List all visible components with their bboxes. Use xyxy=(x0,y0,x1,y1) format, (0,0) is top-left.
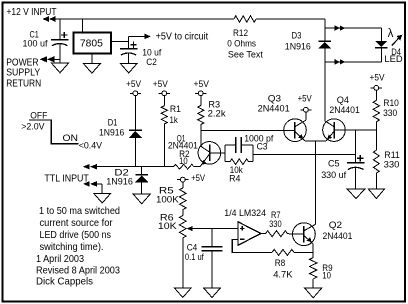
connector arrows +12V input xyxy=(43,16,56,22)
wire op-amp feedback xyxy=(232,239,272,252)
label 100 uf xyxy=(23,39,48,50)
potentiometer R6 xyxy=(180,210,187,288)
resistor R9 xyxy=(310,244,317,288)
wire TTL return xyxy=(95,184,102,194)
note line 6 xyxy=(36,265,120,277)
terminal +5V R1 xyxy=(153,79,170,96)
svg-text:R12: R12 xyxy=(233,28,248,39)
svg-text:Dick Cappels: Dick Cappels xyxy=(36,276,93,288)
label RETURN xyxy=(6,77,41,89)
label Q3 xyxy=(268,94,281,105)
label ON xyxy=(63,133,79,144)
label R2 xyxy=(179,149,190,159)
connector arrows power supply return xyxy=(40,56,60,62)
label See Text xyxy=(228,50,263,61)
resistor R12 xyxy=(234,16,256,22)
svg-text:+5V: +5V xyxy=(126,79,142,90)
ground C5 xyxy=(347,189,365,199)
svg-text:0 Ohms: 0 Ohms xyxy=(227,38,256,49)
svg-text:+5V: +5V xyxy=(298,94,313,105)
transistor Q3 xyxy=(284,119,307,142)
diode D1 xyxy=(129,96,142,167)
label Q4 xyxy=(337,95,349,106)
svg-text:10K: 10K xyxy=(158,221,178,232)
svg-text:2N4401: 2N4401 xyxy=(323,231,353,242)
label 10 R2 xyxy=(179,156,188,166)
wire Q3 collector xyxy=(305,112,307,120)
op-amp U2 1/4 LM324 xyxy=(238,222,261,246)
label 2N4401 Q3 xyxy=(258,104,290,115)
label R4 xyxy=(229,174,240,185)
svg-text:2N4401: 2N4401 xyxy=(168,141,198,151)
svg-text:100 uf: 100 uf xyxy=(23,39,48,50)
label R12 xyxy=(233,28,248,39)
label R1 xyxy=(170,104,181,115)
note line 1 xyxy=(39,205,120,217)
svg-text:330: 330 xyxy=(384,160,400,171)
LED light arrow xyxy=(388,28,403,46)
label 4.7K xyxy=(273,270,293,281)
label 1/4 LM324 xyxy=(224,208,266,219)
transistor Q2 xyxy=(293,223,316,246)
wire +12V rail xyxy=(50,18,325,20)
wire 7805 output xyxy=(111,40,129,42)
label 2.2k xyxy=(208,108,226,119)
svg-text:LED drive (500 ns: LED drive (500 ns xyxy=(40,229,112,241)
ground R9 xyxy=(305,288,322,298)
svg-text:1N916: 1N916 xyxy=(106,176,133,187)
svg-text:R1: R1 xyxy=(170,104,181,115)
LED D4 xyxy=(375,41,387,48)
label 330 R7 xyxy=(269,219,282,230)
label 1N916 D1 xyxy=(99,127,124,138)
label 1k xyxy=(170,115,178,126)
label R8 xyxy=(275,258,286,269)
svg-text:C5: C5 xyxy=(328,159,340,170)
terminal +5V Q3 xyxy=(298,94,313,113)
label C3 xyxy=(257,142,268,153)
waveform TTL levels xyxy=(29,120,79,144)
label D1 xyxy=(108,118,118,129)
terminal +5V R3 xyxy=(194,79,210,96)
capacitor C5 xyxy=(347,130,365,189)
label R5 xyxy=(159,186,174,197)
svg-text:10: 10 xyxy=(179,156,188,166)
label 0.1 uf xyxy=(185,252,204,263)
ground R11 xyxy=(368,189,384,199)
svg-text:+5V: +5V xyxy=(153,79,169,90)
svg-text:0.1 uf: 0.1 uf xyxy=(185,252,204,263)
svg-text:>2.0V: >2.0V xyxy=(21,122,45,133)
label R11 xyxy=(384,150,399,161)
diode D2 xyxy=(135,167,148,195)
svg-text:C2: C2 xyxy=(146,57,157,68)
capacitor C4 xyxy=(202,229,223,288)
svg-text:2N4401: 2N4401 xyxy=(258,104,290,115)
wire emitter node to Q2 collector xyxy=(315,141,317,224)
node C3R4 left bar xyxy=(224,145,226,162)
label R7 xyxy=(271,210,281,221)
regulator U1 7805 input wire xyxy=(82,19,84,32)
label C1 xyxy=(30,29,39,40)
label 10 R9 xyxy=(322,270,331,281)
note line 5 xyxy=(36,253,84,265)
label 2N4401 Q1 xyxy=(168,141,198,151)
resistor R2 xyxy=(174,164,200,169)
svg-text:+5V: +5V xyxy=(194,79,210,90)
capacitor C1 xyxy=(51,19,69,63)
label >2.0V xyxy=(21,122,45,133)
ground C4 xyxy=(204,288,221,298)
svg-text:λ: λ xyxy=(388,28,394,40)
svg-text:+5V: +5V xyxy=(191,173,206,184)
wiper arrow R6 xyxy=(187,226,238,231)
svg-text:330 uf: 330 uf xyxy=(321,170,346,181)
terminal +5V R5 xyxy=(177,173,205,184)
svg-text:C3: C3 xyxy=(257,142,268,153)
label 10 uf xyxy=(142,47,161,58)
label Q2 xyxy=(329,220,342,231)
svg-text:Q2: Q2 xyxy=(329,220,342,231)
svg-text:+5V to circuit: +5V to circuit xyxy=(156,32,209,43)
label D4 xyxy=(391,47,401,58)
label C4 xyxy=(187,243,198,254)
label D2 xyxy=(114,168,128,179)
label OFF xyxy=(30,110,47,121)
svg-text:7805: 7805 xyxy=(80,37,103,49)
label C5 xyxy=(328,159,340,170)
label 1000 pf xyxy=(244,134,273,145)
label C2 xyxy=(146,57,157,68)
svg-text:330: 330 xyxy=(383,108,397,119)
ground TTL return xyxy=(94,193,111,203)
ground C2 xyxy=(120,63,137,73)
label 2N4401 Q4 xyxy=(329,105,359,116)
svg-text:1N916: 1N916 xyxy=(99,127,124,138)
label <0.4V xyxy=(79,141,103,152)
svg-text:100K: 100K xyxy=(156,195,179,206)
wire Q3 Q4 emitters xyxy=(305,140,326,142)
label +12 V INPUT xyxy=(7,6,57,18)
wire LED bottom rail xyxy=(325,48,382,62)
svg-text:10: 10 xyxy=(322,270,331,281)
svg-text:switching time).: switching time). xyxy=(40,241,104,253)
svg-text:<0.4V: <0.4V xyxy=(79,141,103,152)
label 0 Ohms xyxy=(227,38,256,49)
svg-text:RETURN: RETURN xyxy=(6,77,41,89)
resistor R5 xyxy=(180,182,187,210)
svg-text:LED: LED xyxy=(384,54,402,65)
label LED xyxy=(384,54,402,65)
note line 7 xyxy=(36,276,93,288)
terminal +5V D1 xyxy=(126,79,142,96)
svg-text:+5V: +5V xyxy=(370,72,386,83)
wire D3 branch xyxy=(324,19,326,121)
label POWER xyxy=(6,56,39,68)
ground R6 xyxy=(174,288,191,298)
wire bracket to emitter node xyxy=(253,153,356,155)
resistor R7 xyxy=(266,231,294,237)
connector arrows top rail xyxy=(335,25,346,31)
note line 3 xyxy=(40,229,112,241)
label 330 R11 xyxy=(384,160,400,171)
ground C1 xyxy=(52,63,69,73)
svg-text:1/4 LM324: 1/4 LM324 xyxy=(224,208,266,219)
resistor R10 xyxy=(373,90,379,130)
wire LED top rail xyxy=(325,28,382,41)
resistor R8 xyxy=(272,249,313,255)
label 2N4401 Q2 xyxy=(323,231,353,242)
capacitor C3 xyxy=(225,137,253,153)
label 1N916 D2 xyxy=(106,176,133,187)
svg-text:2.2k: 2.2k xyxy=(208,108,226,119)
label +5V to circuit xyxy=(156,32,209,43)
note line 4 xyxy=(40,241,104,253)
label R9 xyxy=(322,263,332,274)
svg-text:1 April 2003: 1 April 2003 xyxy=(36,253,84,265)
svg-text:D3: D3 xyxy=(292,31,302,42)
wire op-amp output xyxy=(261,233,266,235)
capacitor C2 xyxy=(120,41,137,63)
label 10k xyxy=(230,165,243,176)
resistor R11 xyxy=(373,130,379,189)
svg-text:2N4401: 2N4401 xyxy=(329,105,359,116)
label 10K xyxy=(158,221,178,232)
node C3R4 right bar xyxy=(252,145,254,162)
transistor Q4 xyxy=(323,119,377,142)
wire +5V to circuit xyxy=(129,34,151,42)
ground D2 xyxy=(133,194,150,204)
svg-text:4.7K: 4.7K xyxy=(273,270,293,281)
wire TTL input xyxy=(95,166,174,168)
svg-text:current source for: current source for xyxy=(40,217,113,229)
label R3 xyxy=(208,100,220,111)
label 330 uf C5 xyxy=(321,170,346,181)
note line 2 xyxy=(40,217,113,229)
label R10 xyxy=(383,98,399,109)
transistor Q1 xyxy=(198,142,225,167)
svg-text:R8: R8 xyxy=(275,258,286,269)
svg-text:R4: R4 xyxy=(229,174,240,185)
label SUPPLY xyxy=(6,67,40,79)
svg-text:TTL INPUT: TTL INPUT xyxy=(44,173,88,184)
label Q1 xyxy=(177,134,186,144)
label TTL INPUT xyxy=(44,173,88,184)
connector arrows TTL return xyxy=(83,181,97,187)
label R6 xyxy=(160,212,174,223)
svg-text:1k: 1k xyxy=(170,115,178,126)
terminal +5V R10 xyxy=(370,72,386,90)
ground 7805 xyxy=(84,54,101,74)
connector arrows TTL input xyxy=(83,164,97,170)
resistor R4 xyxy=(225,159,253,165)
resistor R3 xyxy=(198,96,204,147)
resistor R1 xyxy=(161,96,167,167)
wire Q1 collector to Q3 base xyxy=(201,129,295,131)
svg-text:330: 330 xyxy=(269,219,282,230)
label 100K xyxy=(156,195,179,206)
label 1N916 D3 xyxy=(285,41,311,52)
svg-text:ON: ON xyxy=(63,133,79,144)
diode D3 xyxy=(318,41,331,48)
connector arrows bottom rail xyxy=(335,59,346,65)
regulator U1 7805 xyxy=(73,32,111,53)
label D3 xyxy=(292,31,302,42)
svg-text:1 to 50 ma switched: 1 to 50 ma switched xyxy=(39,205,120,217)
label 330 R10 xyxy=(383,108,397,119)
svg-text:+12 V INPUT: +12 V INPUT xyxy=(7,6,57,18)
svg-text:See Text: See Text xyxy=(228,50,263,61)
svg-text:1N916: 1N916 xyxy=(285,41,311,52)
